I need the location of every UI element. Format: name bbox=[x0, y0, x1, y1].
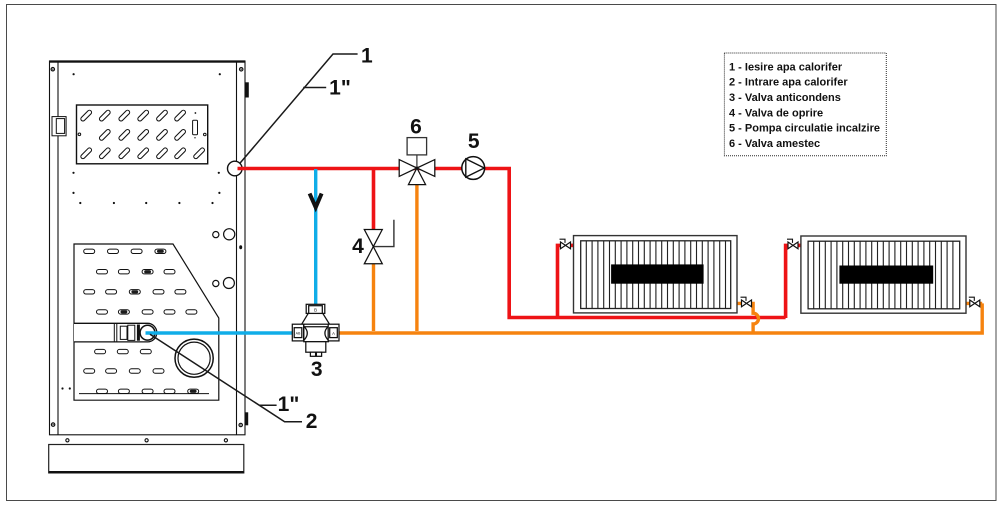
red riser radiator 2 bbox=[786, 245, 789, 318]
radiator 2 bbox=[801, 236, 966, 313]
svg-text:1: 1 bbox=[361, 44, 373, 67]
svg-text:B: B bbox=[314, 307, 317, 312]
screws bbox=[51, 68, 243, 427]
svg-text:2: 2 bbox=[306, 410, 318, 433]
flue circle bbox=[175, 339, 213, 377]
radiator 2 supply valve bbox=[788, 242, 798, 249]
flow arrow on bypass bbox=[310, 194, 322, 208]
pump 5 circulation pump bbox=[462, 157, 485, 180]
red branch to valve 4 bbox=[372, 169, 376, 230]
latch top right bbox=[245, 82, 249, 97]
leader tick 1 inch top bbox=[303, 87, 326, 89]
boiler kick band and plinth bbox=[49, 445, 244, 473]
radiator 1 bbox=[574, 236, 738, 313]
svg-text:2 - Intrare apa calorifer: 2 - Intrare apa calorifer bbox=[729, 77, 848, 89]
leader line label 1 bbox=[240, 54, 358, 163]
blue bypass vertical bbox=[314, 169, 317, 305]
red riser radiator 1 bbox=[558, 245, 562, 318]
svg-text:4: 4 bbox=[352, 235, 364, 258]
radiator 1 supply valve bbox=[561, 242, 571, 249]
radiator 2 return valve bbox=[970, 300, 980, 307]
grille slots bbox=[80, 109, 205, 159]
svg-text:5: 5 bbox=[468, 130, 480, 153]
svg-text:1": 1" bbox=[278, 393, 300, 416]
valve 6 mixing valve actuator box bbox=[407, 138, 427, 155]
inlet fitting slot bbox=[74, 323, 157, 342]
boiler cabinet outline bbox=[50, 61, 246, 435]
leader tick 1 inch bottom bbox=[259, 404, 276, 406]
orange return main bbox=[339, 303, 982, 333]
lower panel slots bbox=[84, 249, 199, 393]
leader line label 2 bbox=[150, 334, 302, 421]
orange branch valve 4 bbox=[372, 264, 375, 331]
boiler outlet circle bbox=[228, 161, 243, 176]
gauge circles bbox=[213, 229, 235, 289]
svg-text:3: 3 bbox=[311, 358, 323, 381]
svg-text:A: A bbox=[332, 331, 335, 336]
lower perforated panel bbox=[74, 244, 219, 400]
vent grille panel bbox=[77, 105, 208, 164]
legend box bbox=[724, 53, 886, 156]
blue return to boiler bbox=[146, 331, 293, 334]
boiler inlet circle bbox=[140, 325, 155, 340]
supply pipe red main bbox=[238, 169, 786, 318]
valve 4 stop valve bbox=[373, 220, 394, 247]
valve 3 anticondens body bbox=[292, 304, 339, 356]
orange branch valve 6 bbox=[415, 185, 418, 331]
boiler top edge bbox=[50, 60, 246, 62]
svg-text:AB: AB bbox=[296, 332, 301, 336]
svg-text:4 - Valva de oprire: 4 - Valva de oprire bbox=[729, 107, 823, 119]
valve 6 mixing valve body bbox=[399, 160, 435, 185]
svg-text:6 - Valva amestec: 6 - Valva amestec bbox=[729, 138, 820, 150]
svg-text:1 - Iesire apa calorifer: 1 - Iesire apa calorifer bbox=[729, 61, 843, 73]
hinge bracket left bbox=[52, 117, 66, 136]
svg-text:6: 6 bbox=[410, 116, 422, 139]
svg-text:1": 1" bbox=[329, 77, 351, 100]
orange drop radiator 1 with crossover jog bbox=[737, 303, 758, 333]
svg-text:3 - Valva anticondens: 3 - Valva anticondens bbox=[729, 92, 841, 104]
latch bottom right bbox=[245, 412, 249, 425]
svg-text:5 - Pompa circulatie incalzire: 5 - Pompa circulatie incalzire bbox=[729, 123, 880, 135]
orange drop radiator 2 bbox=[966, 302, 982, 305]
radiator 1 return valve bbox=[742, 300, 752, 307]
